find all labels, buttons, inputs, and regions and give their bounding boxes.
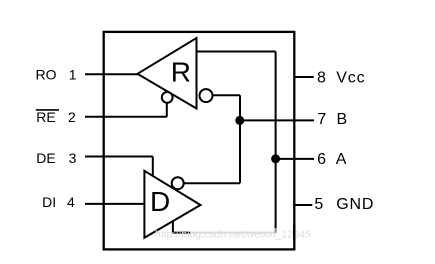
svg-text:4: 4	[67, 194, 75, 210]
svg-text:1: 1	[69, 67, 77, 83]
svg-text:Vcc: Vcc	[336, 69, 365, 86]
svg-text:7: 7	[317, 111, 326, 128]
svg-text:http://blog.csdn.net/weixin_12: http://blog.csdn.net/weixin_12345	[155, 228, 311, 240]
svg-text:D: D	[150, 186, 170, 217]
svg-text:R: R	[171, 56, 191, 87]
svg-text:8: 8	[317, 69, 326, 86]
svg-text:DE: DE	[36, 150, 55, 166]
svg-text:2: 2	[68, 109, 76, 125]
svg-text:A: A	[336, 151, 347, 168]
svg-text:RO: RO	[36, 67, 57, 83]
svg-text:6: 6	[317, 151, 326, 168]
svg-text:3: 3	[69, 150, 77, 166]
svg-text:B: B	[337, 111, 348, 128]
svg-text:RE: RE	[36, 109, 55, 125]
svg-text:5: 5	[314, 196, 323, 213]
svg-text:DI: DI	[42, 194, 56, 210]
svg-text:GND: GND	[336, 196, 374, 213]
